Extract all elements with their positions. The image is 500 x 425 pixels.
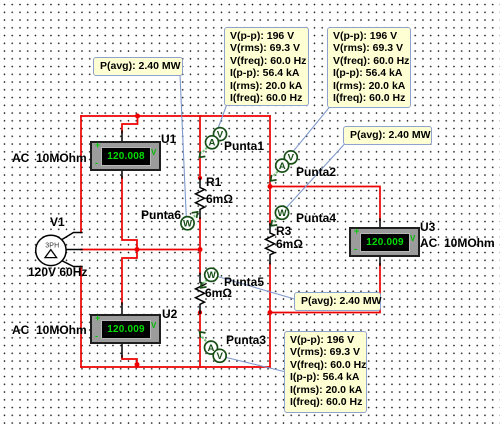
junction dot lower right node <box>268 310 273 315</box>
junction dot right node <box>268 184 273 189</box>
blue leader line callout1 to Punta1 <box>218 104 227 128</box>
probe Punta3 arrow <box>200 332 206 341</box>
probe Punta2 arrow <box>271 171 278 181</box>
label Punta1 <box>224 140 264 152</box>
callout measurement box 3 (Punta3) <box>284 331 367 413</box>
wire top bus <box>81 115 270 117</box>
pin U3 bottom <box>379 256 381 265</box>
label AC 10MOhm (U3) <box>420 237 495 249</box>
label R3 <box>276 225 291 237</box>
label Punta3 <box>226 334 266 346</box>
svg-text:V: V <box>216 351 223 362</box>
pin U1 top <box>121 131 123 141</box>
voltmeter U1 <box>90 141 161 171</box>
callout P(avg) box 1 (Punta6) <box>93 57 183 76</box>
wire left vertical lower (V1 bottom terminal to bottom bus) <box>80 267 82 368</box>
blue leader line P(avg) box2 to Punta4 <box>287 144 346 208</box>
callout measurement box 2 (Punta2) <box>327 27 411 108</box>
resistor R2 middle (6 mOhm, Punta5) <box>196 274 205 314</box>
label AC 10MOhm (U1) <box>12 152 87 164</box>
svg-text:3PH: 3PH <box>45 243 59 250</box>
wire U2 bottom jog to bottom bus <box>122 356 137 367</box>
svg-text:W: W <box>207 270 217 281</box>
source V1 three-phase: terminal top <box>60 233 83 242</box>
voltmeter U2 <box>90 314 161 344</box>
blue leader line callout2 to Punta2 <box>292 107 330 153</box>
blue leader line P(avg) box3 to Punta5 <box>218 277 295 300</box>
blue leader line P(avg) box1 to Punta6 <box>180 75 186 218</box>
junction dot middle wire / U1-U2 link <box>135 247 140 252</box>
label Punta2 <box>296 166 336 178</box>
callout P(avg) box 3 (Punta5) <box>294 292 381 311</box>
svg-text:A: A <box>209 138 216 149</box>
wire node to U3 top <box>270 187 380 221</box>
wire left vertical upper (V1 top terminal to top bus) <box>80 116 82 233</box>
voltmeter U3 <box>349 227 420 257</box>
probe Punta1 circles A/V <box>206 128 227 149</box>
label U3 <box>420 221 435 233</box>
label Punta6 <box>141 209 181 221</box>
resistor R1 (6 mOhm) <box>196 179 205 219</box>
probe Punta6 circle W <box>181 217 194 230</box>
probe Punta3 circles A/V <box>205 341 227 362</box>
wire R2 bottom to bottom bus <box>199 313 201 368</box>
pin U2 bottom <box>121 343 123 357</box>
pin connection dot R2 bottom <box>198 310 202 314</box>
label U2 <box>162 308 177 320</box>
label R2 value 6mOhm <box>205 287 232 299</box>
callout P(avg) box 2 (Punta4) <box>343 126 432 145</box>
blue leader line callout3 to Punta3 <box>226 358 284 372</box>
pin U3 top <box>379 219 381 227</box>
label R1 value 6mOhm <box>206 193 233 205</box>
junction dot middle wire at x=200 <box>198 247 203 252</box>
probe Punta2 circles A/V <box>276 151 298 172</box>
label U1 <box>161 133 176 145</box>
probe Punta5 arrow <box>201 280 207 288</box>
wire U1 bottom down to jog <box>122 177 137 304</box>
label V1 <box>50 216 65 228</box>
callout measurement box 1 (Punta1) <box>224 27 309 106</box>
svg-text:W: W <box>183 219 193 230</box>
wire V1 middle terminal to node at x=200 <box>81 249 200 251</box>
wire branch R1 vertical top (top bus to R1) <box>199 116 201 177</box>
svg-text:W: W <box>277 208 287 219</box>
resistor R3 (6 mOhm) <box>266 224 275 264</box>
probe Punta1 arrow <box>199 148 207 158</box>
label AC 10MOhm (U2) <box>12 324 87 336</box>
wire lower junction to bottom bus <box>269 313 271 368</box>
source V1 body circle <box>36 235 66 265</box>
label Punta5 <box>224 276 264 288</box>
junction dot U2 bottom at bus <box>135 362 140 367</box>
pin U2 top <box>121 303 123 314</box>
source V1 delta triangle <box>45 250 57 258</box>
label 120V 60Hz <box>28 266 87 278</box>
wire node down to R3 <box>269 187 271 225</box>
pin U1 bottom <box>121 171 123 178</box>
pin connection dot R1 top <box>198 176 202 180</box>
source V1 terminal middle <box>66 249 83 251</box>
wire R1 bottom to middle node <box>199 218 201 250</box>
wire R3 bottom to lower junction <box>269 264 271 313</box>
wire bottom bus <box>81 366 270 368</box>
wire U1 top tap from bus <box>122 116 138 133</box>
wire right branch vertical (top bus corner down to node) <box>269 116 271 187</box>
label R1 <box>206 176 221 188</box>
probe Punta6 arrow <box>191 212 197 219</box>
svg-text:V: V <box>288 153 295 164</box>
svg-text:A: A <box>279 161 286 172</box>
source V1 terminal bottom <box>60 260 83 267</box>
probe Punta5 circle W <box>205 268 218 281</box>
wire U3 bottom to lower junction <box>270 264 380 313</box>
wire middle node down to R2 top <box>199 250 201 275</box>
junction dot on top bus at U1 tap <box>135 114 140 119</box>
label Punta4 <box>296 212 336 224</box>
probe Punta4 arrow <box>271 217 278 226</box>
probe Punta4 circle W <box>275 206 288 219</box>
label R3 value 6mOhm <box>276 238 303 250</box>
